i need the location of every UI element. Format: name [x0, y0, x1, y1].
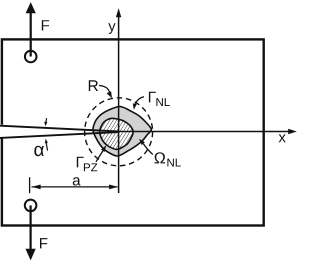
R leader arrow [99, 86, 110, 93]
upper load arrow F [30, 13, 32, 57]
Omega_NL leader arrow [143, 144, 152, 155]
lower load arrow F [30, 205, 32, 249]
R label [89, 80, 98, 91]
x-axis [119, 131, 290, 133]
alpha angle arrow upper (points down to upper crack face) [45, 118, 48, 123]
dimension a: line [32, 186, 118, 188]
x-axis label [279, 134, 286, 142]
y-axis [118, 16, 120, 193]
upper F label [42, 20, 49, 30]
Gamma_NL label [149, 92, 156, 103]
y-axis label [108, 23, 115, 34]
dimension a: right arrowhead [109, 185, 118, 190]
x-axis arrowhead [288, 129, 297, 134]
plate (rectangular specimen) [2, 39, 264, 225]
crack upper face [0, 126, 119, 132]
Gamma_PZ label [77, 157, 84, 168]
upper pin hole [25, 51, 37, 63]
alpha label [34, 146, 44, 156]
nonlinear zone Omega_NL (gray blob) [93, 106, 151, 156]
plastic zone (hatched) with boundary Gamma_PZ [100, 118, 134, 149]
dimension a: left tick [29, 177, 31, 193]
lower pin hole [25, 200, 37, 212]
crack mouth (notch opening at plate edge) [0, 125, 4, 138]
Omega_NL label [155, 152, 166, 163]
y-axis arrowhead [116, 8, 121, 17]
dashed circle radius R [85, 98, 153, 166]
alpha angle arrow lower (points up to lower crack face) [46, 142, 47, 150]
Gamma_NL leader arrow [135, 97, 144, 104]
lower F label [40, 238, 47, 248]
dimension a: left arrowhead [32, 185, 41, 190]
dimension a: label [73, 177, 81, 185]
Gamma_PZ leader arrow [96, 151, 103, 162]
crack lower face [0, 132, 119, 138]
